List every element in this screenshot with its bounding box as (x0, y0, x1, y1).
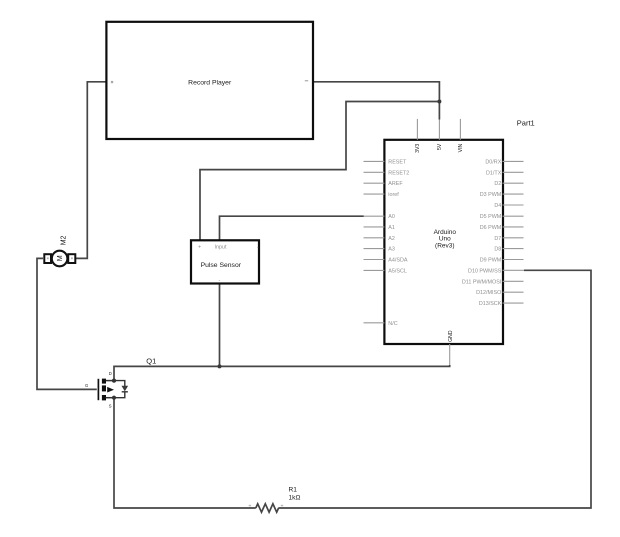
svg-text:S: S (109, 404, 112, 409)
svg-text:5V: 5V (437, 143, 443, 150)
svg-text:D9 PWM: D9 PWM (480, 258, 502, 264)
transistor Q1 grey pin name D (109, 371, 112, 376)
svg-text:D2: D2 (494, 181, 501, 187)
Arduino A0 pin stub (364, 215, 385, 217)
motor M2 right terminal (68, 254, 75, 263)
Arduino top pin labels (415, 143, 464, 153)
svg-text:AREF: AREF (388, 181, 403, 187)
svg-text:A5/SCL: A5/SCL (388, 268, 407, 274)
svg-text:D: D (109, 371, 112, 376)
svg-text:R1: R1 (289, 487, 298, 494)
transistor Q1 source junction dot (112, 396, 116, 400)
svg-text:A1: A1 (388, 225, 395, 231)
Arduino bottom pin GND (449, 344, 451, 365)
wire: GND rail from Q1 drain to Arduino GND (114, 365, 450, 381)
svg-text:A3: A3 (388, 247, 395, 253)
svg-text:D11 PWM/MOSI: D11 PWM/MOSI (462, 279, 501, 285)
record player pin2 connector mark (305, 80, 308, 81)
Arduino right pins (503, 161, 525, 303)
svg-text:RESET2: RESET2 (388, 170, 409, 176)
resistor lead faint marks (249, 505, 283, 507)
svg-text:A0: A0 (388, 214, 395, 220)
junction: 5V net joint (437, 100, 441, 104)
wire: pulse sensor signal to Arduino A0 (220, 216, 364, 240)
record player pin1 connector mark (111, 81, 113, 83)
svg-text:3V3: 3V3 (415, 144, 421, 153)
motor terminal faint marks (47, 257, 73, 259)
pulse sensor box (191, 240, 259, 283)
transistor Q1 body diode (114, 381, 128, 398)
svg-text:(Rev3): (Rev3) (435, 242, 455, 249)
motor M2 left terminal (44, 254, 51, 263)
Arduino part reference label Part1 (517, 119, 535, 128)
wire: record player pin2 to Arduino 5V (313, 82, 439, 120)
svg-text:D6 PWM: D6 PWM (480, 225, 502, 231)
svg-text:A4/SDA: A4/SDA (388, 258, 408, 264)
svg-text:M2: M2 (61, 235, 68, 245)
svg-text:D12/MISO: D12/MISO (476, 290, 501, 296)
wire: record player pin1 to motor M2 right terminal (76, 82, 106, 259)
svg-text:G: G (85, 383, 88, 388)
record player label (188, 80, 232, 87)
junction: pulse sensor minus on GND rail (218, 364, 222, 368)
record player P1 box (106, 22, 313, 139)
motor M2 body circle (52, 251, 68, 267)
pulse sensor label (201, 262, 242, 269)
svg-text:N/C: N/C (388, 321, 397, 327)
Arduino left pins (364, 161, 385, 322)
Arduino right pin labels (462, 159, 502, 307)
svg-text:Input: Input (215, 245, 227, 251)
Arduino title (434, 229, 457, 250)
svg-text:D8: D8 (494, 247, 501, 253)
wire: motor M2 left terminal to Q1 gate (37, 258, 97, 389)
svg-text:D7: D7 (494, 236, 501, 242)
Arduino top pins 3V3 5V VIN (417, 119, 460, 140)
svg-text:Part1: Part1 (517, 119, 535, 128)
resistor R1 value labels (289, 487, 301, 502)
wire: pulse sensor + to 5V net (200, 102, 439, 241)
svg-text:Q1: Q1 (146, 356, 156, 365)
svg-text:A2: A2 (388, 236, 395, 242)
svg-text:D4: D4 (494, 203, 501, 209)
transistor Q1 drain junction dot (112, 379, 116, 383)
transistor Q1 drain link (106, 380, 114, 382)
resistor R1 zigzag (256, 504, 279, 512)
svg-text:VIN: VIN (458, 143, 464, 152)
svg-text:1kΩ: 1kΩ (289, 494, 301, 501)
svg-text:D1/TX: D1/TX (486, 170, 502, 176)
Arduino GND label (448, 330, 454, 342)
transistor Q1 source link (106, 397, 114, 399)
transistor Q1 body arrow (107, 387, 114, 393)
pulse sensor pin labels (198, 244, 259, 283)
svg-text:D0/RX: D0/RX (485, 159, 501, 165)
svg-text:-: - (257, 244, 259, 250)
transistor Q1 reference label (146, 356, 156, 365)
op-amp style part: Arduino Uno box (384, 140, 503, 344)
motor M letter (55, 255, 64, 261)
svg-text:+: + (198, 245, 201, 251)
svg-text:D10 PWM/SS: D10 PWM/SS (468, 268, 502, 274)
transistor Q1 gate lead and gate line (97, 379, 99, 400)
wire: bottom rail right of resistor up to Arduino D10 (278, 270, 591, 508)
transistor Q1 grey pin name S (109, 404, 112, 409)
transistor Q1 grey pin name G (85, 383, 88, 388)
wire: pulse sensor - down to GND rail (219, 284, 221, 367)
svg-text:ioref: ioref (388, 192, 399, 198)
svg-text:-: - (219, 278, 221, 284)
svg-text:RESET: RESET (388, 159, 407, 165)
svg-text:D3 PWM: D3 PWM (480, 192, 502, 198)
svg-text:GND: GND (448, 330, 454, 342)
motor M2 reference label (61, 235, 68, 245)
svg-text:Pulse Sensor: Pulse Sensor (201, 262, 242, 269)
svg-text:M: M (55, 255, 64, 261)
svg-text:D13/SCK: D13/SCK (479, 301, 502, 307)
svg-text:Record Player: Record Player (188, 80, 232, 87)
transistor Q1 channel bars (102, 379, 106, 401)
wire: Q1 source down to bottom rail (114, 398, 256, 508)
svg-text:D5 PWM: D5 PWM (480, 214, 502, 220)
Arduino left pin labels (388, 159, 409, 326)
